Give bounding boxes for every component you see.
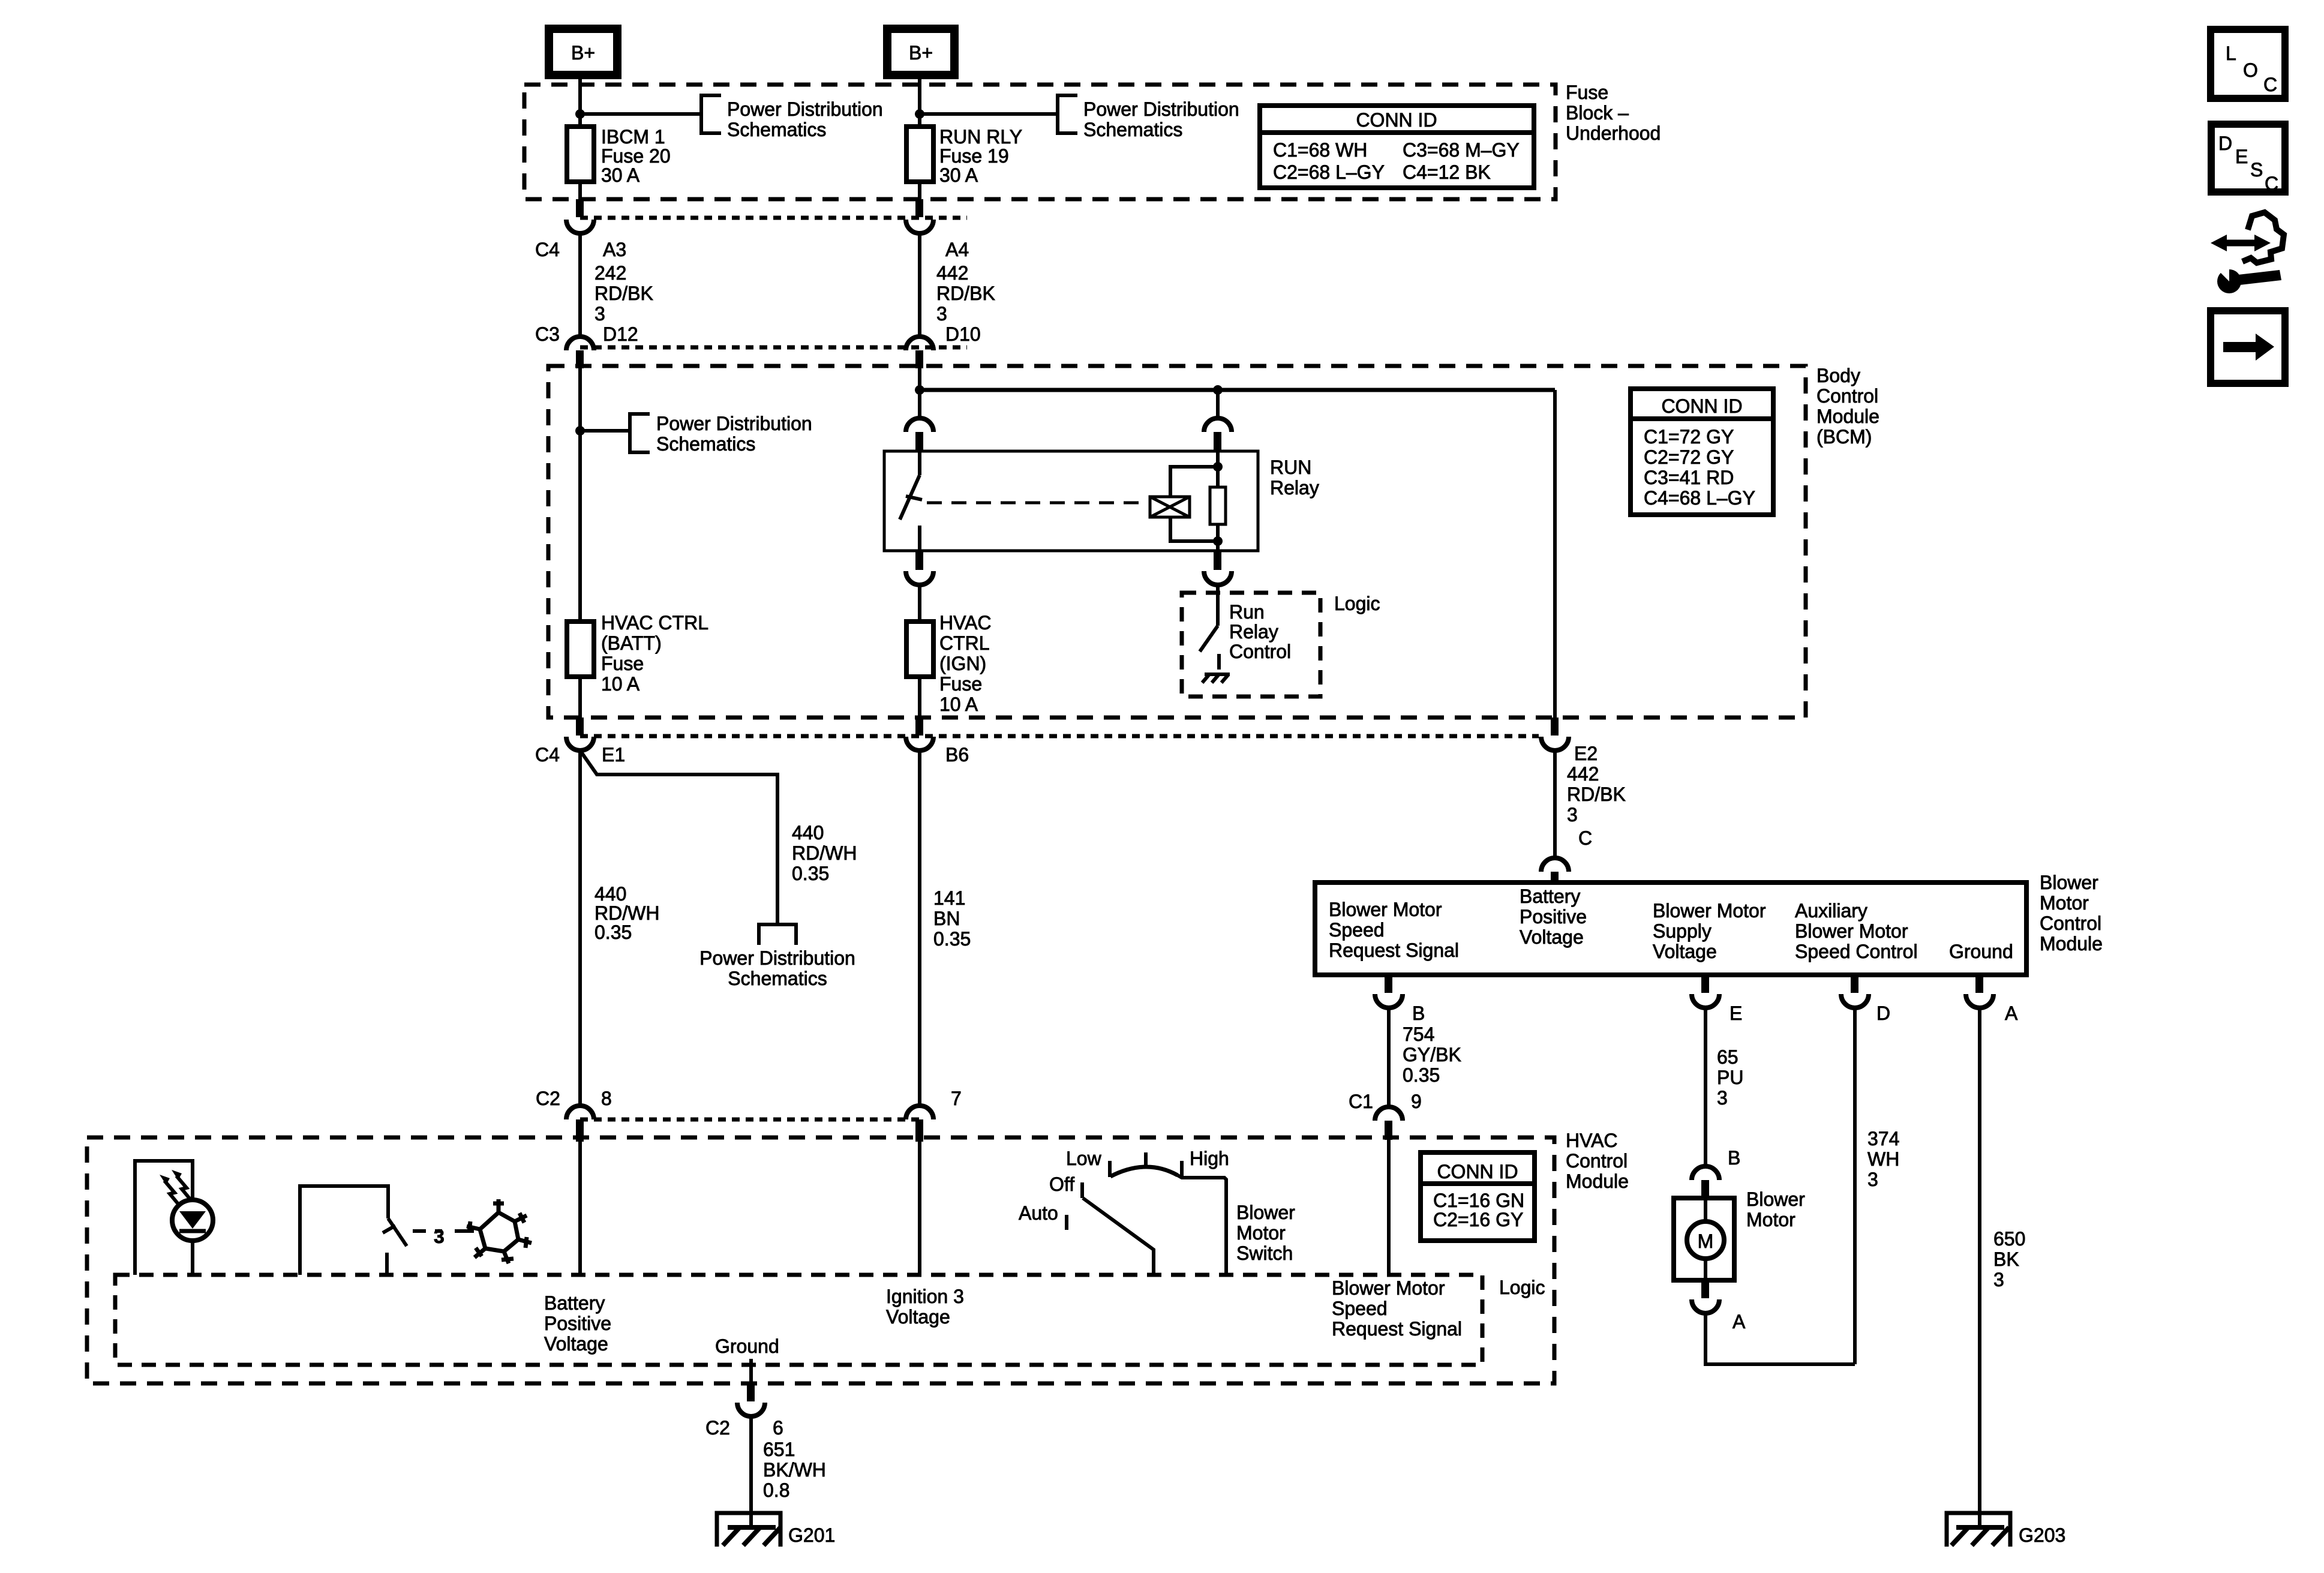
connector pin C2-8 (wire1 into HVAC) <box>566 1106 594 1119</box>
label Run Relay Control <box>1229 601 1291 662</box>
svg-text:E1: E1 <box>602 744 625 766</box>
svg-text:HVAC: HVAC <box>1566 1130 1618 1151</box>
wire fuse to BCM bottom (wire1) <box>578 677 582 718</box>
label Ignition 3 Voltage <box>886 1286 964 1328</box>
node junction wire1 in BCM <box>575 426 585 436</box>
connector cup C (BMCM) <box>1541 858 1569 872</box>
svg-text:Auto: Auto <box>1019 1202 1058 1224</box>
off-page reference bracket (Power Distribution) wire2 <box>1058 95 1077 133</box>
label Fuse Block Underhood <box>1566 82 1661 144</box>
svg-text:3: 3 <box>1993 1269 2004 1290</box>
connector cup C3-D12 <box>566 337 594 350</box>
Body Control Module box <box>548 366 1806 718</box>
svg-text:440: 440 <box>594 883 626 905</box>
connector pin E (BMCM) <box>1701 975 1709 993</box>
relay coil resistor <box>1210 487 1226 524</box>
svg-text:C2=16 GY: C2=16 GY <box>1433 1209 1523 1230</box>
svg-text:Underhood: Underhood <box>1566 122 1661 144</box>
connector cup C2-6 <box>737 1403 765 1416</box>
svg-text:Module: Module <box>1566 1170 1629 1192</box>
connector pin below relay coil <box>1214 551 1221 570</box>
svg-text:C3: C3 <box>535 323 560 345</box>
label Blower Motor Control Module <box>2040 872 2103 954</box>
node relay coil bottom <box>1213 536 1223 546</box>
label 440 RD/WH 0.35 (wire1) <box>594 883 659 943</box>
svg-text:Control: Control <box>1816 385 1878 407</box>
ground G203 <box>1947 1513 2010 1547</box>
label 374 WH 3 <box>1867 1128 1899 1190</box>
svg-text:C: C <box>1578 827 1592 849</box>
label 651 BK/WH 0.8 <box>763 1439 826 1501</box>
svg-text:C2=72 GY: C2=72 GY <box>1644 446 1734 468</box>
wire fuse F1 to connector <box>578 182 582 202</box>
svg-text:C4=12 BK: C4=12 BK <box>1403 161 1491 183</box>
AC request switch branch <box>300 1186 388 1275</box>
connector pin relay pin 1 <box>915 432 923 451</box>
svg-text:Motor: Motor <box>2040 892 2089 914</box>
relay mechanical link dashed <box>927 502 1141 505</box>
Blower Motor Control Module box <box>1315 882 2026 975</box>
svg-text:C: C <box>2263 74 2277 95</box>
svg-text:C2: C2 <box>536 1088 560 1109</box>
label 141 BN 0.35 <box>933 887 971 950</box>
wire fuse F2 to connector <box>918 182 921 202</box>
svg-text:S: S <box>2250 159 2263 181</box>
dotted connector interface row 1 <box>580 216 967 220</box>
svg-text:CONN ID: CONN ID <box>1356 109 1437 131</box>
svg-text:RD/BK: RD/BK <box>1567 784 1626 805</box>
connector cup relay pin 1 <box>906 418 933 432</box>
svg-text:442: 442 <box>936 262 968 284</box>
svg-text:BK: BK <box>1993 1248 2019 1270</box>
connector pin relay pin 2 <box>1214 432 1221 451</box>
svg-text:Fuse 20: Fuse 20 <box>601 145 671 167</box>
svg-text:754: 754 <box>1403 1023 1434 1045</box>
svg-text:Schematics: Schematics <box>1083 119 1182 140</box>
connector pin C (BMCM) <box>1551 872 1559 884</box>
wire fuse IGN to BCM bottom <box>918 677 921 718</box>
connector pin D10 <box>915 350 923 368</box>
svg-text:Off: Off <box>1049 1173 1074 1195</box>
svg-text:0.35: 0.35 <box>594 921 632 943</box>
label Blower Motor Speed Request Signal (HVAC) <box>1332 1277 1462 1340</box>
icon wrench and arrows <box>2211 212 2284 293</box>
fuse RUN RLY Fuse 19 30A <box>906 126 1022 186</box>
ground G201 <box>717 1513 780 1547</box>
connector pin B6 below BCM <box>915 718 923 736</box>
svg-text:GY/BK: GY/BK <box>1403 1044 1461 1065</box>
connector pin A (BMCM) <box>1975 975 1983 993</box>
label RUN Relay <box>1270 457 1319 499</box>
svg-text:440: 440 <box>792 822 824 843</box>
svg-text:Motor: Motor <box>1746 1209 1795 1230</box>
svg-text:Auxiliary: Auxiliary <box>1795 900 1867 921</box>
svg-text:M: M <box>1698 1230 1714 1252</box>
svg-text:D12: D12 <box>603 323 638 345</box>
label 754 GY/BK 0.35 <box>1403 1023 1461 1086</box>
svg-text:0.35: 0.35 <box>933 928 971 950</box>
svg-text:Supply: Supply <box>1653 920 1712 942</box>
svg-text:3: 3 <box>1717 1087 1728 1109</box>
svg-text:30 A: 30 A <box>939 164 978 186</box>
svg-text:Fuse: Fuse <box>1566 82 1608 103</box>
connector cup relay pin 2 <box>1204 418 1232 432</box>
svg-text:E2: E2 <box>1574 743 1598 764</box>
wire relay to fuse HVAC CTRL IGN <box>918 585 921 624</box>
RUN Relay box <box>884 451 1258 551</box>
label 440 RD/WH 0.35 (branch) <box>792 822 857 884</box>
svg-text:(IGN): (IGN) <box>939 653 986 674</box>
Run Relay Control logic box <box>1182 593 1320 697</box>
svg-text:3: 3 <box>1567 804 1578 825</box>
svg-text:RD/WH: RD/WH <box>792 842 857 864</box>
svg-text:C4: C4 <box>535 744 560 766</box>
svg-text:442: 442 <box>1567 763 1599 785</box>
label Body Control Module (BCM) <box>1816 365 1879 448</box>
svg-text:Battery: Battery <box>1520 885 1580 907</box>
svg-text:Fuse 19: Fuse 19 <box>939 145 1009 167</box>
svg-text:651: 651 <box>763 1439 795 1460</box>
svg-text:Schematics: Schematics <box>727 119 826 140</box>
svg-text:10 A: 10 A <box>601 673 640 695</box>
Fuse Block - Underhood box <box>524 85 1556 199</box>
svg-text:Voltage: Voltage <box>1520 926 1584 948</box>
svg-text:Blower Motor: Blower Motor <box>1329 899 1442 920</box>
wire branch 440 RD/WH to power distribution <box>580 751 777 924</box>
svg-text:C2: C2 <box>705 1417 730 1439</box>
svg-text:10 A: 10 A <box>939 694 978 715</box>
svg-text:8: 8 <box>601 1088 612 1109</box>
icon arrow box <box>2211 311 2285 383</box>
sun load sensor branch <box>135 1161 193 1275</box>
svg-text:6: 6 <box>773 1417 783 1439</box>
blower switch blade <box>1083 1198 1154 1275</box>
connector cup E2 <box>1541 737 1569 751</box>
svg-text:D: D <box>2218 133 2232 154</box>
sun load sensor light arrows <box>160 1170 191 1205</box>
svg-text:Schematics: Schematics <box>656 433 755 455</box>
svg-text:Low: Low <box>1066 1148 1102 1169</box>
wire B+1 to fuse F1 <box>578 75 582 129</box>
wire wire1 inside HVAC <box>578 1142 582 1275</box>
svg-text:Voltage: Voltage <box>886 1306 950 1328</box>
connector pin D (BMCM) <box>1851 975 1858 993</box>
svg-text:C2=68 L–GY: C2=68 L–GY <box>1273 161 1385 183</box>
fuse IBCM 1 Fuse 20 30A <box>567 126 671 186</box>
wire wire1 down to fuse HVAC CTRL BATT <box>578 431 582 624</box>
connector cup A4 <box>906 220 933 233</box>
label Blower Motor Speed Request Signal (BMCM) <box>1329 899 1459 961</box>
wire curl to snowflake <box>455 1229 474 1233</box>
wire E2 branch down <box>1553 390 1557 718</box>
wire B to HVAC C1 <box>1387 1008 1391 1107</box>
label Battery Positive Voltage (HVAC) <box>544 1292 611 1355</box>
connector cup D (BMCM) <box>1841 994 1869 1008</box>
wire pin to BCM (wire1) <box>578 367 582 433</box>
label 650 BK 3 <box>1993 1228 2025 1290</box>
svg-text:HVAC CTRL: HVAC CTRL <box>601 612 708 634</box>
connector cup A (BMCM) <box>1966 994 1993 1008</box>
svg-text:B+: B+ <box>571 42 595 64</box>
connector cup C4-A3 <box>566 220 594 233</box>
wire relay coil top <box>1170 451 1218 497</box>
svg-text:Fuse: Fuse <box>939 673 982 695</box>
connector cup B6 <box>906 737 933 751</box>
svg-text:Speed Control: Speed Control <box>1795 941 1918 962</box>
svg-text:Blower Motor: Blower Motor <box>1653 900 1766 921</box>
connector pin C3-D12 <box>576 350 584 368</box>
svg-text:E: E <box>2235 146 2248 167</box>
svg-text:Control: Control <box>1566 1150 1628 1172</box>
icon LOC box <box>2211 29 2285 98</box>
svg-text:WH: WH <box>1867 1148 1899 1170</box>
svg-text:Battery: Battery <box>544 1292 605 1314</box>
svg-text:Power Distribution: Power Distribution <box>699 947 855 969</box>
svg-text:L: L <box>2226 43 2236 64</box>
svg-text:PU: PU <box>1717 1067 1743 1088</box>
wire C1 pin into HVAC <box>1387 1140 1391 1275</box>
sun load sensor photodiode <box>172 1200 213 1241</box>
wire junction to off-page bracket 2 <box>920 112 1058 116</box>
svg-text:C1=68 WH: C1=68 WH <box>1273 139 1367 161</box>
svg-text:7: 7 <box>951 1088 962 1109</box>
wire A to ground G203 <box>1978 1008 1981 1527</box>
blower motor box <box>1674 1198 1734 1280</box>
svg-text:Run: Run <box>1229 601 1265 623</box>
connector cup B (BMCM) <box>1375 994 1403 1008</box>
svg-text:B: B <box>1412 1002 1425 1024</box>
node junction wire1 <box>575 109 585 119</box>
wire connector to C3 (wire1) <box>578 233 582 337</box>
svg-text:C: C <box>2265 173 2278 194</box>
connector cup A blower motor <box>1692 1299 1719 1313</box>
label Blower Motor Switch <box>1236 1202 1295 1264</box>
wire ground HVAC <box>749 1359 753 1387</box>
connector cup E (BMCM) <box>1692 994 1719 1008</box>
connector cup below relay coil <box>1204 571 1232 585</box>
svg-text:A3: A3 <box>603 239 626 260</box>
svg-text:0.35: 0.35 <box>1403 1064 1440 1086</box>
wire ground to G201 <box>749 1416 753 1527</box>
svg-text:C3=68 M–GY: C3=68 M–GY <box>1403 139 1520 161</box>
svg-text:Logic: Logic <box>1334 593 1380 614</box>
svg-text:650: 650 <box>1993 1228 2025 1250</box>
snowflake symbol <box>467 1199 532 1263</box>
svg-text:CTRL: CTRL <box>939 632 990 654</box>
wire coil tap to relay connector <box>1216 390 1220 419</box>
blower motor symbol M <box>1687 1198 1724 1280</box>
svg-text:Speed: Speed <box>1332 1298 1388 1319</box>
label Battery Positive Voltage (BMCM) <box>1520 885 1587 948</box>
svg-text:Voltage: Voltage <box>544 1333 608 1355</box>
svg-text:RUN RLY: RUN RLY <box>939 126 1022 148</box>
connector cup C1-9 <box>1375 1107 1403 1121</box>
svg-text:141: 141 <box>933 887 965 909</box>
relay switch contact <box>900 451 922 551</box>
dotted connector interface row above HVAC <box>580 1118 920 1122</box>
wire junction to bracket in BCM <box>580 429 630 433</box>
svg-text:Power Distribution: Power Distribution <box>727 98 883 120</box>
fuse HVAC CTRL (IGN) Fuse 10A <box>906 612 992 715</box>
svg-text:O: O <box>2243 59 2258 81</box>
svg-text:Blower: Blower <box>1746 1188 1805 1210</box>
connector cup 7 (wire2 into HVAC) <box>906 1106 933 1119</box>
svg-text:C1=16 GN: C1=16 GN <box>1433 1190 1524 1211</box>
wire bus wire2 to E2 branch <box>920 388 1555 392</box>
svg-text:Ground: Ground <box>715 1335 779 1357</box>
dotted connector interface row 2 <box>580 346 967 350</box>
svg-text:C1=72 GY: C1=72 GY <box>1644 426 1734 448</box>
svg-text:(BATT): (BATT) <box>601 632 662 654</box>
label Auxiliary Blower Motor Speed Control <box>1795 900 1918 962</box>
svg-text:3: 3 <box>594 303 605 325</box>
blower switch auto tick <box>1065 1215 1068 1230</box>
connector cup B blower motor <box>1692 1166 1719 1180</box>
svg-text:Request Signal: Request Signal <box>1332 1318 1462 1340</box>
CONN ID table BCM <box>1631 389 1773 515</box>
AC request switch blade <box>383 1218 407 1275</box>
svg-text:High: High <box>1190 1148 1229 1169</box>
svg-text:RD/WH: RD/WH <box>594 902 659 924</box>
svg-text:IBCM 1: IBCM 1 <box>601 126 665 148</box>
svg-text:G203: G203 <box>2019 1524 2065 1546</box>
svg-text:C4=68 L–GY: C4=68 L–GY <box>1644 487 1755 509</box>
connector pin C2-6 <box>747 1383 755 1401</box>
label Blower Motor Supply Voltage <box>1653 900 1766 962</box>
svg-text:Ground: Ground <box>1949 941 2013 962</box>
svg-text:E: E <box>1730 1002 1742 1024</box>
svg-text:G201: G201 <box>788 1524 835 1546</box>
connector pin E2 below BCM <box>1551 718 1559 736</box>
svg-text:Control: Control <box>2040 912 2101 934</box>
wire wire2 to relay connector <box>918 390 921 419</box>
svg-text:A: A <box>2005 1002 2018 1024</box>
blower switch off tick <box>1080 1182 1084 1198</box>
wire wire2 inside HVAC <box>918 1142 921 1275</box>
svg-text:Voltage: Voltage <box>1653 941 1717 962</box>
svg-text:Power Distribution: Power Distribution <box>656 413 812 434</box>
logic ground rake <box>1202 674 1230 683</box>
svg-text:Module: Module <box>2040 933 2103 954</box>
label 442 RD/BK 3 <box>936 262 995 325</box>
logic switch run relay control <box>1200 585 1219 670</box>
svg-text:RD/BK: RD/BK <box>936 283 995 304</box>
svg-text:242: 242 <box>594 262 626 284</box>
svg-text:HVAC: HVAC <box>939 612 992 634</box>
svg-text:3: 3 <box>1867 1169 1878 1190</box>
B+ terminal 2 <box>887 29 954 75</box>
connector pin C4-A3 (wire1) <box>576 199 584 217</box>
svg-text:65: 65 <box>1717 1046 1739 1068</box>
svg-text:Block –: Block – <box>1566 102 1629 124</box>
wire relay coil bottom <box>1170 517 1218 551</box>
AC request dashed link <box>413 1229 442 1233</box>
svg-text:Schematics: Schematics <box>728 968 827 989</box>
svg-text:B+: B+ <box>909 42 933 64</box>
label Power Distribution Schematics (fuse block, wire2) <box>1083 98 1239 140</box>
svg-text:BK/WH: BK/WH <box>763 1459 826 1481</box>
off-page reference bracket (Power Distribution) wire1 <box>701 95 721 133</box>
svg-text:(BCM): (BCM) <box>1816 426 1872 448</box>
connector cup below relay wire2 <box>906 571 933 585</box>
svg-text:CONN ID: CONN ID <box>1661 395 1742 417</box>
svg-text:CONN ID: CONN ID <box>1437 1161 1518 1182</box>
wire wire1 BCM to HVAC <box>578 751 582 1106</box>
svg-text:BN: BN <box>933 908 960 929</box>
svg-text:RUN: RUN <box>1270 457 1311 478</box>
svg-text:Request Signal: Request Signal <box>1329 939 1459 961</box>
label Power Distribution Schematics (BCM) <box>656 413 812 455</box>
svg-text:B6: B6 <box>945 744 969 766</box>
wire B+2 to fuse F2 <box>918 75 921 129</box>
wire blower motor A to D wire <box>1706 1313 1855 1364</box>
svg-text:Positive: Positive <box>1520 906 1587 927</box>
connector pin B blower motor <box>1701 1180 1709 1198</box>
svg-text:A4: A4 <box>945 239 969 260</box>
wire E to blower motor <box>1704 1008 1707 1167</box>
svg-text:Control: Control <box>1229 641 1291 662</box>
connector pin C1-9 <box>1385 1121 1392 1140</box>
svg-text:Module: Module <box>1816 406 1879 427</box>
connector cup D10 <box>906 337 933 350</box>
wire D to blower motor return <box>1853 1008 1857 1364</box>
svg-text:Fuse: Fuse <box>601 653 644 674</box>
label 65 PU 3 <box>1717 1046 1743 1109</box>
svg-text:C1: C1 <box>1349 1091 1373 1112</box>
connector pin A4 (wire2) <box>915 199 923 217</box>
svg-text:Relay: Relay <box>1270 477 1319 499</box>
connector cup C4-E1 <box>566 737 594 751</box>
svg-text:374: 374 <box>1867 1128 1899 1149</box>
svg-text:D10: D10 <box>945 323 981 345</box>
blower motor switch ticks and arc <box>1110 1152 1226 1275</box>
label Power Distribution Schematics (branch) <box>699 947 855 989</box>
label Blower Motor <box>1746 1188 1805 1230</box>
svg-text:B: B <box>1728 1147 1740 1169</box>
svg-text:Relay: Relay <box>1229 621 1278 643</box>
svg-text:Blower Motor: Blower Motor <box>1332 1277 1445 1299</box>
wire pin to BCM (wire2) <box>918 367 921 390</box>
svg-text:Blower: Blower <box>2040 872 2098 893</box>
CONN ID table HVAC <box>1421 1152 1535 1241</box>
dotted connector interface row below BCM <box>580 734 1539 739</box>
svg-text:Ignition 3: Ignition 3 <box>886 1286 964 1307</box>
connector pin B (BMCM) <box>1385 975 1392 993</box>
svg-text:A: A <box>1733 1311 1746 1332</box>
node junction relay coil tap <box>1213 385 1223 395</box>
svg-text:Speed: Speed <box>1329 919 1385 941</box>
B+ terminal 1 <box>549 29 617 75</box>
HVAC logic box <box>115 1275 1482 1365</box>
connector pin below relay wire2 <box>915 551 923 570</box>
svg-text:C3=41 RD: C3=41 RD <box>1644 467 1734 488</box>
wire junction to off-page bracket <box>580 112 701 116</box>
svg-text:0.8: 0.8 <box>763 1479 789 1501</box>
wire wire2 BCM to HVAC <box>918 751 921 1106</box>
svg-text:Power Distribution: Power Distribution <box>1083 98 1239 120</box>
wire E2 to blower motor control module <box>1553 751 1557 859</box>
node junction wire2 <box>915 109 924 119</box>
svg-text:Body: Body <box>1816 365 1860 386</box>
label 442 RD/BK 3 (E2) <box>1567 763 1626 825</box>
relay coil X-box <box>1150 497 1190 517</box>
connector pin C4-E1 below BCM <box>576 718 584 736</box>
wire connector to D10 (wire2) <box>918 233 921 337</box>
icon DESC box <box>2211 124 2285 194</box>
label Power Distribution Schematics (fuse block, wire1) <box>727 98 883 140</box>
svg-text:0.35: 0.35 <box>792 863 829 884</box>
svg-text:9: 9 <box>1411 1091 1422 1112</box>
